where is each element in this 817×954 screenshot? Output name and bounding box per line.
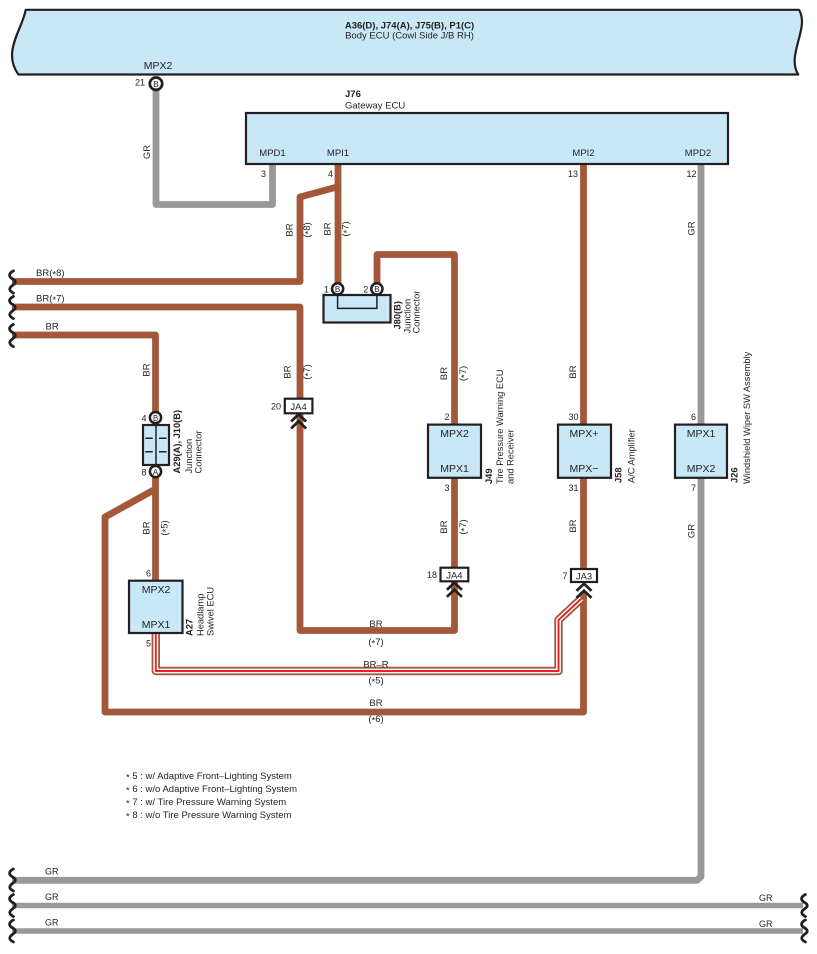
svg-text:BR: BR xyxy=(568,519,579,532)
label GR on x701 wire below J26 xyxy=(687,524,698,538)
label BR on branch wire x300 xyxy=(285,223,296,236)
label BR above y630.5 horizontal xyxy=(369,619,382,630)
label BR on left horizontal xyxy=(46,322,59,333)
label (*7) on x300 wire above JA4(20) xyxy=(302,364,314,379)
label BR(*8) on left horizontal xyxy=(36,268,65,280)
svg-text:2: 2 xyxy=(363,285,368,295)
svg-text:13: 13 xyxy=(568,169,578,179)
svg-text:(*7): (*7) xyxy=(458,366,470,381)
svg-text:GR: GR xyxy=(687,524,698,538)
label (*7) on pin4 wire xyxy=(341,221,353,236)
svg-text:7: 7 xyxy=(691,483,696,493)
svg-text:BR–R: BR–R xyxy=(363,660,388,671)
svg-text:(*5): (*5) xyxy=(160,520,172,535)
connector JA3 pin 7 xyxy=(562,569,597,598)
svg-text:Swivel ECU: Swivel ECU xyxy=(206,587,216,636)
label GR right on bottom line3 xyxy=(759,919,773,929)
note legend lines xyxy=(126,771,297,822)
svg-text:Junction: Junction xyxy=(184,439,194,474)
svg-text:* 6 : w/o Adaptive Front–Light: * 6 : w/o Adaptive Front–Lighting System xyxy=(126,784,297,796)
wire BR(*5) from A29 pin 8 (A) down to A27 pin 6 xyxy=(152,477,159,581)
svg-text:MPX1: MPX1 xyxy=(687,428,716,440)
svg-text:MPX2: MPX2 xyxy=(142,584,171,596)
box A27 Headlamp Swivel ECU xyxy=(129,569,216,649)
box J49 Tire Pressure Warning ECU and Receiver xyxy=(428,369,516,493)
break symbol left of bottom GR line 1 xyxy=(10,869,16,891)
svg-text:MPX1: MPX1 xyxy=(440,463,469,475)
junction connector J80(B) xyxy=(324,283,422,333)
svg-text:BR: BR xyxy=(369,619,382,630)
svg-text:* 5 : w/ Adaptive Front–Lighti: * 5 : w/ Adaptive Front–Lighting System xyxy=(126,771,292,783)
svg-text:3: 3 xyxy=(444,483,449,493)
svg-text:J49: J49 xyxy=(484,468,494,484)
svg-text:4: 4 xyxy=(141,414,146,424)
box J26 Windshield Wiper SW Assembly xyxy=(675,351,752,493)
svg-text:BR: BR xyxy=(142,363,153,376)
break symbol right of bottom GR line 2 xyxy=(802,895,808,917)
svg-text:31: 31 xyxy=(568,483,578,493)
wire GR bottom bus line 3 xyxy=(12,928,803,934)
svg-text:1: 1 xyxy=(324,285,329,295)
pin circle 21(B) on Body ECU xyxy=(135,78,162,90)
svg-text:BR: BR xyxy=(568,365,579,378)
break symbol left of BR(*8) xyxy=(10,271,16,293)
break symbol left of BR xyxy=(10,324,16,346)
svg-text:6: 6 xyxy=(691,412,696,422)
break symbol left of BR(*7) xyxy=(10,296,16,318)
svg-text:BR: BR xyxy=(283,365,294,378)
svg-text:JA3: JA3 xyxy=(576,571,592,582)
wire BR(*6) branch from A-wire diagonal down left, bottom run right, up to JA3(7) xyxy=(105,489,584,712)
svg-text:B: B xyxy=(153,414,158,423)
wire GR from 21(B) down and right up to J76 MPD1 pin 3 xyxy=(156,88,273,205)
label (*5) on x155.5 wire above A27 xyxy=(160,520,172,535)
connector JA4 pin 18 xyxy=(427,568,468,597)
wire BR-R white separator xyxy=(156,599,582,672)
svg-text:Tire Pressure Warning ECU: Tire Pressure Warning ECU xyxy=(495,369,505,484)
svg-text:A: A xyxy=(153,468,159,477)
svg-text:JA4: JA4 xyxy=(446,570,462,581)
svg-text:(*7): (*7) xyxy=(341,221,353,236)
svg-text:B: B xyxy=(374,285,379,294)
svg-text:BR: BR xyxy=(142,521,153,534)
svg-text:MPX+: MPX+ xyxy=(570,428,599,440)
svg-text:18: 18 xyxy=(427,570,437,580)
svg-text:MPD1: MPD1 xyxy=(259,148,285,159)
svg-text:B: B xyxy=(335,285,340,294)
svg-text:Connector: Connector xyxy=(412,291,422,334)
svg-text:GR: GR xyxy=(759,919,773,929)
break symbol left of bottom GR line 2 xyxy=(10,895,16,917)
junction connector A29(A), J10(B) xyxy=(141,410,203,478)
label (*7) below y630.5 horizontal xyxy=(368,637,383,649)
svg-text:(*8): (*8) xyxy=(302,222,314,237)
svg-text:(*7): (*7) xyxy=(302,364,314,379)
svg-text:MPX2: MPX2 xyxy=(687,463,716,475)
label GR on MPD2 wire upper xyxy=(687,221,698,235)
label GR left on bottom line2 xyxy=(45,892,59,902)
label BR on x454.5 wire below J49 xyxy=(439,520,450,533)
svg-text:MPX−: MPX− xyxy=(570,463,599,475)
svg-text:Connector: Connector xyxy=(194,431,204,474)
svg-text:21: 21 xyxy=(135,78,145,88)
svg-text:(*7): (*7) xyxy=(368,637,383,649)
wire GR from J76 MPD2 pin 12 through J26 down to bottom bus line 1 xyxy=(12,164,701,880)
label BR on x155.5 wire above A27 xyxy=(142,521,153,534)
svg-text:GR: GR xyxy=(759,893,773,903)
svg-text:Windshield Wiper SW Assembly: Windshield Wiper SW Assembly xyxy=(742,351,752,484)
chevron arrows under JA3(7) xyxy=(577,584,592,598)
svg-text:MPX1: MPX1 xyxy=(142,619,171,631)
label BR on x583.5 wire below J58 xyxy=(568,519,579,532)
svg-text:J58: J58 xyxy=(614,467,624,483)
svg-text:A/C Amplifier: A/C Amplifier xyxy=(627,429,637,483)
box J58 A/C Amplifier xyxy=(558,412,637,493)
wire BR third left break to A29 junction connector pin 4 (B) xyxy=(12,335,156,412)
svg-text:5: 5 xyxy=(146,639,151,649)
label BR above y712 horizontal xyxy=(369,698,382,709)
svg-text:and Receiver: and Receiver xyxy=(506,429,516,484)
wire BR-R red core xyxy=(156,599,582,672)
svg-text:J26: J26 xyxy=(730,467,740,483)
svg-text:BR: BR xyxy=(323,222,334,235)
box Body ECU bus bar A36(D), J74(A), J75(B), P1(C) xyxy=(12,10,802,75)
svg-text:BR: BR xyxy=(439,367,450,380)
svg-text:30: 30 xyxy=(568,412,578,422)
svg-text:J76: J76 xyxy=(345,89,361,100)
svg-text:GR: GR xyxy=(45,892,59,902)
svg-text:BR: BR xyxy=(285,223,296,236)
svg-text:J80(B): J80(B) xyxy=(393,301,403,329)
label (*5) below y671 horizontal xyxy=(368,676,383,688)
label BR on x300 wire above JA4(20) xyxy=(283,365,294,378)
wire GR bottom bus line 2 xyxy=(12,903,803,909)
svg-text:MPD2: MPD2 xyxy=(685,148,711,159)
svg-text:12: 12 xyxy=(686,169,696,179)
svg-text:Gateway ECU: Gateway ECU xyxy=(345,101,405,112)
label GR left on bottom line3 xyxy=(45,918,59,928)
svg-text:(*5): (*5) xyxy=(368,676,383,688)
chevron arrows under JA4(20) xyxy=(291,414,306,428)
svg-text:BR(*7): BR(*7) xyxy=(36,294,65,306)
wire BR from J76 MPI1 pin 4 down to J80(B) pin 1 xyxy=(335,164,342,284)
label GR right on bottom line2 xyxy=(759,893,773,903)
label BR on pin4 wire xyxy=(323,222,334,235)
label (*8) on branch wire x300 xyxy=(302,222,314,237)
label GR on wire from 21(B) xyxy=(142,145,153,159)
svg-text:MPI2: MPI2 xyxy=(572,148,594,159)
svg-text:MPI1: MPI1 xyxy=(327,148,349,159)
svg-text:A29(A), J10(B): A29(A), J10(B) xyxy=(172,410,182,474)
wire BR(*8) branch from pin-4 wire diagonal then left to break xyxy=(12,187,339,282)
svg-text:Body ECU (Cowl Side J/B RH): Body ECU (Cowl Side J/B RH) xyxy=(345,31,474,42)
connector JA4 pin 20 xyxy=(271,399,312,429)
svg-text:GR: GR xyxy=(45,918,59,928)
label BR on x155.5 wire above circle B xyxy=(142,363,153,376)
svg-text:MPX2: MPX2 xyxy=(440,428,469,440)
svg-text:GR: GR xyxy=(687,221,698,235)
svg-text:20: 20 xyxy=(271,402,281,412)
label GR left on bottom line1 xyxy=(45,867,59,877)
label (*7) on x454.5 wire below J49 xyxy=(458,519,470,534)
chevron arrows under JA4(18) xyxy=(447,583,462,597)
wire BR(*7) from left break right then down through JA4(20), right, up to JA4(18) xyxy=(12,307,455,631)
wire BR from J76 MPI2 pin 13 down to J58 MPX+ pin 30 xyxy=(580,164,587,425)
svg-text:BR: BR xyxy=(46,322,59,333)
wire BR from J49 MPX1 pin 3 down to JA4(18) xyxy=(451,478,458,570)
svg-text:BR: BR xyxy=(439,520,450,533)
svg-text:7: 7 xyxy=(562,571,567,581)
wire BR-R (brown outer) from A27 pin 5 down right and diagonally up into JA3(7) xyxy=(156,599,582,672)
break symbol right of bottom GR line 3 xyxy=(802,920,808,942)
svg-text:BR(*8): BR(*8) xyxy=(36,268,65,280)
svg-text:* 8 : w/o Tire Pressure Warnin: * 8 : w/o Tire Pressure Warning System xyxy=(126,810,292,822)
svg-text:A27: A27 xyxy=(185,619,195,636)
svg-text:(*6): (*6) xyxy=(368,714,383,726)
svg-text:JA4: JA4 xyxy=(290,402,306,413)
svg-text:B: B xyxy=(153,79,159,89)
wire BR from J80(B) pin 2 up right and down to J49 MPX2 pin 2 xyxy=(377,255,455,426)
label (*7) on x454.5 wire above J49 xyxy=(458,366,470,381)
svg-text:6: 6 xyxy=(146,569,151,579)
label BR(*7) on left horizontal xyxy=(36,294,65,306)
svg-text:BR: BR xyxy=(369,698,382,709)
svg-text:3: 3 xyxy=(261,169,266,179)
svg-text:GR: GR xyxy=(45,867,59,877)
label (*6) below y712 horizontal xyxy=(368,714,383,726)
label BR on x583.5 wire above J58 xyxy=(568,365,579,378)
svg-text:4: 4 xyxy=(328,169,333,179)
svg-text:* 7 : w/ Tire Pressure Warning: * 7 : w/ Tire Pressure Warning System xyxy=(126,797,286,809)
svg-text:GR: GR xyxy=(142,145,153,159)
wire BR from J58 MPX- pin 31 down to JA3(7) xyxy=(580,478,587,571)
svg-text:MPX2: MPX2 xyxy=(144,60,173,72)
break symbol left of bottom GR line 3 xyxy=(10,920,16,942)
svg-text:8: 8 xyxy=(141,468,146,478)
label BR-R above y671 horizontal xyxy=(363,660,388,671)
svg-text:Headlamp: Headlamp xyxy=(196,594,206,636)
box J76 Gateway ECU xyxy=(246,89,728,179)
label BR on x454.5 wire above J49 xyxy=(439,367,450,380)
svg-text:(*7): (*7) xyxy=(458,519,470,534)
svg-text:2: 2 xyxy=(444,412,449,422)
